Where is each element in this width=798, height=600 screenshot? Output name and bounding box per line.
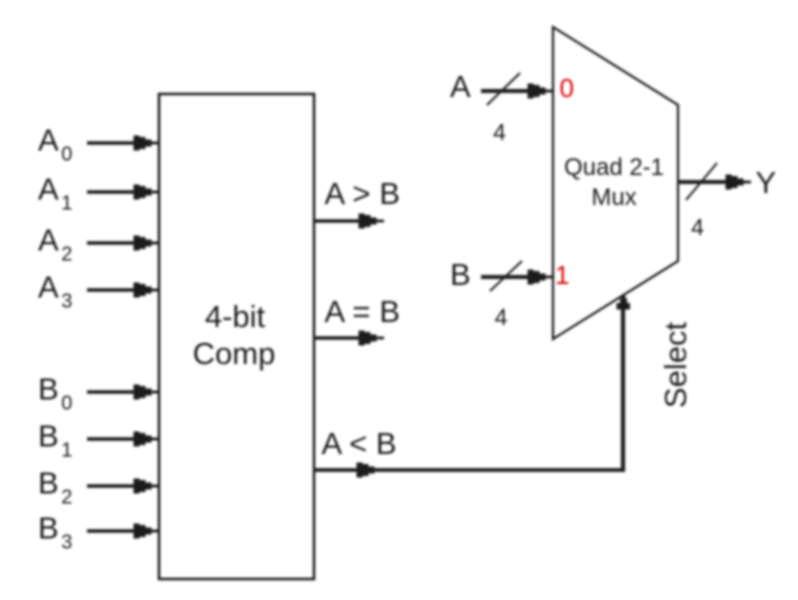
wire output A greater B with arrowhead [314, 214, 384, 229]
svg-text:Mux: Mux [591, 184, 636, 211]
op-amp U2 (Quad 2-1 Mux) trapezoid body [553, 27, 678, 339]
svg-text:4: 4 [493, 119, 506, 145]
svg-text:4: 4 [495, 304, 508, 330]
output label "A > B" [325, 176, 401, 211]
input A3 label [38, 270, 72, 313]
wire input B1 with arrowhead [87, 432, 159, 447]
svg-text:A = B: A = B [325, 294, 401, 329]
svg-text:4-bit: 4-bit [205, 299, 266, 334]
pin label 0 (red) [560, 73, 574, 103]
node Select label (rotated) [658, 322, 693, 409]
bus width label 4 (B bus) [495, 304, 508, 330]
comparator label "4-bit Comp" [193, 299, 276, 371]
wire output A less B (select net) horizontal run with mid arrowhead [314, 463, 625, 478]
svg-text:A < B: A < B [322, 426, 397, 461]
input B2 label [38, 466, 72, 509]
mux input A label [450, 69, 471, 104]
wire input A0 with arrowhead [87, 136, 159, 151]
wire output Y with arrowhead [678, 175, 751, 190]
wire input B0 with arrowhead [87, 385, 159, 400]
svg-text:B2: B2 [38, 466, 72, 509]
bus slash A [487, 73, 520, 105]
wire select net vertical run [617, 295, 631, 473]
svg-text:0: 0 [560, 73, 574, 103]
wire input B2 with arrowhead [87, 479, 159, 494]
wire mux input B with arrowhead [481, 270, 553, 285]
svg-text:Comp: Comp [193, 336, 276, 371]
comparator U1 (4-bit Comp) box [159, 94, 314, 579]
svg-text:B3: B3 [38, 511, 72, 554]
wire mux input A with arrowhead [481, 84, 553, 99]
bus width label 4 (A bus) [493, 119, 506, 145]
svg-text:A > B: A > B [325, 176, 401, 211]
svg-text:A0: A0 [38, 123, 72, 166]
svg-text:Y: Y [756, 165, 777, 200]
svg-text:A1: A1 [38, 172, 72, 215]
pin label 1 (red) [555, 260, 569, 290]
svg-text:B1: B1 [38, 419, 72, 462]
wire output A equal B with arrowhead [314, 331, 384, 346]
svg-text:Select: Select [658, 322, 693, 409]
bus slash B [490, 261, 522, 291]
output label "A = B" [325, 294, 401, 329]
svg-text:B0: B0 [38, 372, 72, 415]
mux input B label [450, 257, 471, 292]
input A1 label [38, 172, 72, 215]
svg-text:A2: A2 [38, 223, 72, 266]
wire input A3 with arrowhead [87, 283, 159, 298]
svg-text:A3: A3 [38, 270, 72, 313]
input B3 label [38, 511, 72, 554]
svg-text:4: 4 [691, 214, 704, 240]
mux label "Quad 2-1 Mux" [564, 154, 664, 211]
bus width label 4 (Y bus) [691, 214, 704, 240]
input B0 label [38, 372, 72, 415]
input B1 label [38, 419, 72, 462]
bus slash Y [686, 163, 717, 200]
svg-text:A: A [450, 69, 471, 104]
svg-text:B: B [450, 257, 471, 292]
wire input B3 with arrowhead [87, 524, 159, 539]
wire input A1 with arrowhead [87, 185, 159, 200]
svg-text:Quad 2-1: Quad 2-1 [564, 154, 664, 181]
svg-text:1: 1 [555, 260, 569, 290]
wire input A2 with arrowhead [87, 236, 159, 251]
output label "A < B" [322, 426, 397, 461]
input A0 label [38, 123, 72, 166]
input A2 label [38, 223, 72, 266]
output Y label [756, 165, 777, 200]
